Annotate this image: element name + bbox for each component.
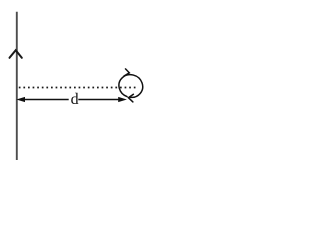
loop current arrow top [124, 69, 129, 76]
loop (circular loop, open at bottom-left) [119, 75, 143, 98]
dimension arrowhead right [118, 97, 127, 102]
wire (long straight vertical wire) [16, 12, 18, 160]
dotted center line [19, 87, 137, 89]
dimension arrowhead left [16, 97, 25, 102]
loop current arrow bottom [128, 94, 133, 102]
dimension line right segment [78, 99, 119, 101]
current arrow on wire (upward chevron) [10, 50, 22, 58]
svg-text:d: d [71, 91, 79, 108]
dimension line left segment [23, 99, 69, 101]
